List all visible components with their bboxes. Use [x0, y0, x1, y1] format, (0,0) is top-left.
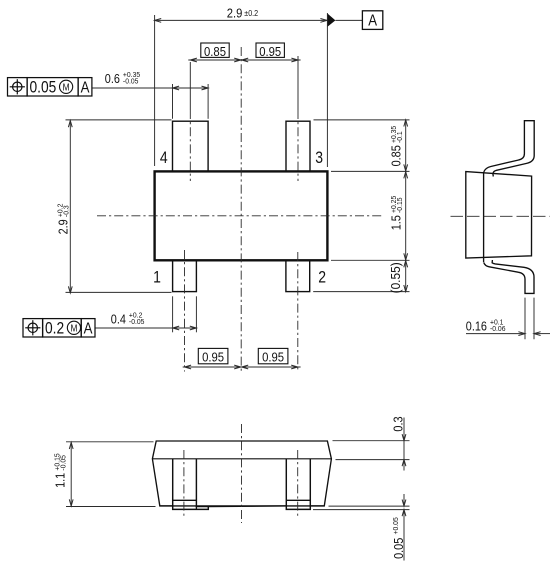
svg-text:-0.1: -0.1	[396, 131, 404, 143]
svg-text:-0.05: -0.05	[123, 77, 139, 85]
svg-text:4: 4	[160, 149, 168, 167]
svg-text:3: 3	[315, 149, 323, 167]
svg-text:2: 2	[318, 269, 326, 287]
svg-text:-0.3: -0.3	[62, 205, 70, 217]
svg-text:-0.15: -0.15	[396, 197, 404, 213]
svg-text:0.85: 0.85	[204, 44, 226, 59]
svg-text:0.3: 0.3	[391, 416, 406, 431]
svg-text:0.16: 0.16	[466, 319, 488, 334]
svg-text:-0.06: -0.06	[490, 325, 506, 333]
svg-text:1: 1	[153, 268, 161, 286]
svg-text:A: A	[81, 80, 90, 97]
svg-text:0.95: 0.95	[202, 350, 224, 365]
svg-text:0.95: 0.95	[259, 44, 281, 59]
svg-text:1.1: 1.1	[52, 472, 67, 487]
svg-text:+0.05: +0.05	[392, 517, 400, 534]
svg-text:M: M	[63, 82, 70, 93]
svg-text:0.05: 0.05	[30, 79, 57, 97]
svg-text:0.4: 0.4	[111, 312, 126, 327]
svg-text:-0.05: -0.05	[129, 318, 145, 326]
svg-text:0.85: 0.85	[389, 145, 404, 167]
svg-text:1.5: 1.5	[389, 215, 404, 230]
svg-text:2.9: 2.9	[55, 219, 70, 234]
svg-text:2.9: 2.9	[227, 6, 243, 21]
svg-text:(0.55): (0.55)	[389, 262, 403, 293]
svg-text:A: A	[84, 321, 93, 338]
svg-text:0.2: 0.2	[45, 320, 64, 338]
svg-text:A: A	[368, 13, 377, 30]
svg-text:±0.2: ±0.2	[244, 8, 258, 18]
svg-text:0.6: 0.6	[105, 71, 120, 86]
svg-text:-0.05: -0.05	[59, 455, 67, 471]
svg-text:0.05: 0.05	[391, 537, 406, 559]
svg-text:0.95: 0.95	[262, 350, 284, 365]
svg-text:M: M	[70, 323, 77, 334]
